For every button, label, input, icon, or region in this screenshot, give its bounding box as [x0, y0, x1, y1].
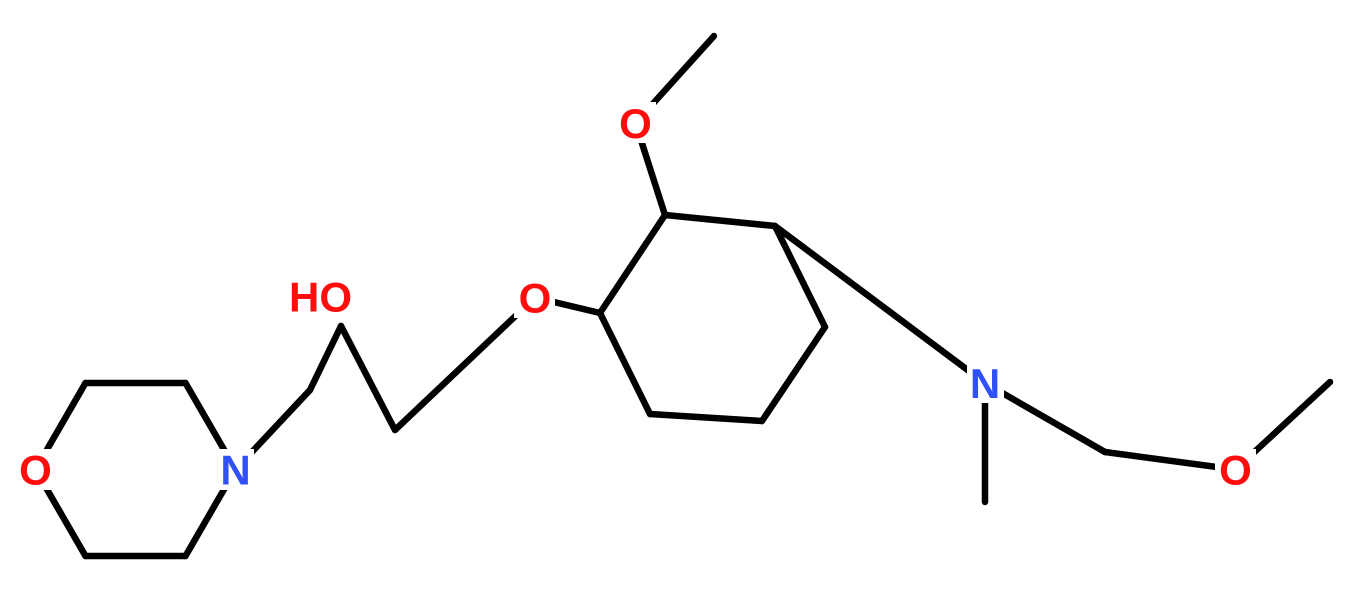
- label clearance O ether: [514, 277, 555, 318]
- ring bond Cc-Cd: [650, 414, 762, 421]
- bond O(methoxy top)-Ca: [636, 123, 666, 215]
- morpholine ring bond N-Cbr: [186, 470, 236, 557]
- morpholine ring bond Ctl-Ctr: [86, 380, 186, 387]
- bond N(right)-Ca2: [985, 383, 1105, 452]
- label clearance O morpholine: [15, 449, 56, 490]
- morpholine ring bond Cbl-O: [36, 470, 86, 557]
- svg-text:N: N: [220, 447, 250, 494]
- svg-text:O: O: [619, 100, 652, 147]
- label clearance HO: [286, 276, 356, 317]
- bond O(methoxy top)-CH3: [636, 36, 715, 123]
- ring bond Cb-Cc: [600, 313, 650, 414]
- svg-text:O: O: [19, 447, 52, 494]
- morpholine ring bond O-Ctl: [36, 383, 86, 470]
- morpholine ring bond Ctr-N: [186, 383, 236, 470]
- bond N(right)-CH3 down: [982, 383, 989, 502]
- label clearance N morpholine: [217, 449, 254, 490]
- label clearance O right: [1215, 449, 1256, 490]
- morpholine ring bond Cbr-Cbl: [86, 553, 186, 560]
- bond C3-O(ether): [395, 298, 535, 431]
- ring bond Cf-Ca: [665, 215, 775, 226]
- ring bond Ca-Cb: [600, 215, 665, 313]
- bond C1-C2: [310, 326, 341, 390]
- label clearance N right: [967, 361, 1004, 403]
- svg-text:O: O: [1219, 447, 1252, 494]
- svg-text:O: O: [519, 275, 552, 322]
- bond O(ether)-ring Cb: [535, 298, 600, 314]
- label clearance O methoxy top: [615, 102, 656, 143]
- ring bond Cd-Ce: [762, 327, 825, 421]
- bond Ca2-O(right): [1105, 452, 1236, 470]
- bond C2-C3: [341, 326, 395, 430]
- bond O(right)-CH3: [1236, 382, 1331, 470]
- ring bond Ce-Cf: [775, 226, 825, 327]
- bond N(morpholine)-C1: [236, 390, 311, 470]
- svg-text:HO: HO: [289, 274, 352, 321]
- bond Cf-CH2-N(right) long: [775, 226, 985, 383]
- svg-text:N: N: [970, 360, 1000, 407]
